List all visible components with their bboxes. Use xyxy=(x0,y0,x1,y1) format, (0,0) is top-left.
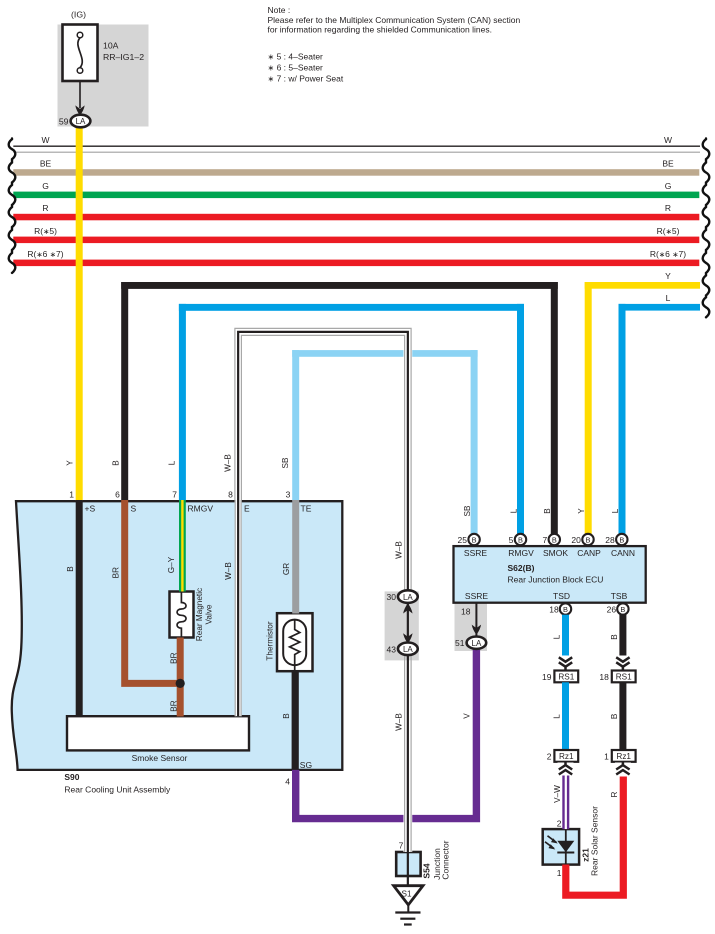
svg-text:W–B: W–B xyxy=(224,562,233,580)
fuse RR-IG1-2 10A xyxy=(63,25,98,82)
wire bus G xyxy=(13,192,699,199)
svg-text:26: 26 xyxy=(607,604,617,614)
svg-text:S54: S54 xyxy=(422,863,432,878)
svg-text:S: S xyxy=(131,504,137,514)
svg-text:BR: BR xyxy=(169,700,178,711)
svg-text:Valve: Valve xyxy=(205,604,214,624)
bus labels left xyxy=(27,135,63,259)
svg-text:20: 20 xyxy=(571,535,581,545)
wire G-Y pin7 to valve xyxy=(179,500,186,592)
wire B vertical to ECU SMOK pin7 xyxy=(551,282,558,535)
svg-text:CANN: CANN xyxy=(611,548,635,558)
z21 photodiode symbol xyxy=(545,829,574,864)
svg-text:B: B xyxy=(610,713,619,719)
wire L vertical to ECU RMGV pin5 xyxy=(517,304,524,535)
wire Y vertical to ECU CANP pin20 xyxy=(585,282,592,535)
svg-text:R(∗6 ∗7): R(∗6 ∗7) xyxy=(650,249,686,259)
arrow into 51 LA xyxy=(472,625,481,635)
svg-text:G–Y: G–Y xyxy=(167,556,176,573)
ECU top pin numbers xyxy=(458,535,615,545)
svg-text:V: V xyxy=(462,713,471,719)
svg-text:B: B xyxy=(619,535,624,544)
svg-text:3: 3 xyxy=(286,490,291,500)
svg-text:43: 43 xyxy=(387,644,397,654)
svg-text:59: 59 xyxy=(59,117,69,127)
wire L horizontal bus-mid xyxy=(179,304,524,311)
svg-text:+S: +S xyxy=(85,504,96,514)
svg-text:SB: SB xyxy=(463,505,472,516)
svg-text:B: B xyxy=(563,605,568,614)
wire V S90 pin4 to 51 LA xyxy=(296,648,477,819)
wire bus R(*5) xyxy=(13,237,699,244)
wire color labels above ECU xyxy=(463,505,620,516)
svg-text:6: 6 xyxy=(115,490,120,500)
wire Y fuse to S90 pin1 xyxy=(76,127,83,501)
svg-text:25: 25 xyxy=(458,535,468,545)
svg-text:BE: BE xyxy=(662,158,674,168)
svg-text:E: E xyxy=(244,504,250,514)
svg-text:Rz1: Rz1 xyxy=(559,752,574,761)
svg-text:1: 1 xyxy=(604,751,609,761)
svg-text:30: 30 xyxy=(387,592,397,602)
ECU top pin circles B xyxy=(468,534,627,545)
wire B RS1 to Rz1 xyxy=(619,682,626,750)
svg-text:S62(B): S62(B) xyxy=(508,563,535,573)
svg-text:for information regarding the: for information regarding the shielded C… xyxy=(268,25,492,35)
SSRE pin 18 wire to 51 LA xyxy=(475,603,477,638)
svg-text:B: B xyxy=(610,634,619,640)
svg-text:5: 5 xyxy=(509,535,514,545)
svg-text:∗ 7 : w/ Power Seat: ∗ 7 : w/ Power Seat xyxy=(268,74,344,84)
svg-text:Y: Y xyxy=(665,271,671,281)
svg-text:18: 18 xyxy=(549,604,559,614)
svg-text:G: G xyxy=(665,181,672,191)
wire L vertical to S90 pin7 xyxy=(179,304,186,501)
wire shielded W-B white backing xyxy=(238,332,408,852)
svg-text:R(∗5): R(∗5) xyxy=(34,226,57,236)
svg-text:CANP: CANP xyxy=(577,548,601,558)
svg-text:RS1: RS1 xyxy=(616,673,632,682)
S4 junction connector box xyxy=(396,852,420,876)
wire B TSB to RS1 xyxy=(619,615,626,671)
chevrons into RS1 TSB xyxy=(615,656,631,671)
svg-text:R: R xyxy=(610,791,619,797)
svg-text:7: 7 xyxy=(542,535,547,545)
svg-text:GR: GR xyxy=(282,563,291,575)
S90 pin names xyxy=(85,504,313,771)
svg-text:L: L xyxy=(552,714,561,719)
svg-text:10A: 10A xyxy=(103,41,119,51)
svg-text:51: 51 xyxy=(455,638,465,648)
fuse block shading xyxy=(58,25,149,127)
svg-text:Please refer to the Multiplex: Please refer to the Multiplex Communicat… xyxy=(268,15,521,25)
chevrons into RS1 TSD xyxy=(558,656,574,671)
svg-text:RMGV: RMGV xyxy=(188,504,214,514)
svg-text:W–B: W–B xyxy=(394,541,403,559)
wire B thermistor to S90 pin4 xyxy=(292,671,299,770)
connector RS1 #19 xyxy=(554,671,578,683)
S90 pin numbers xyxy=(69,490,290,787)
svg-text:W: W xyxy=(664,135,672,145)
svg-text:28: 28 xyxy=(605,535,615,545)
rear magnetic valve box xyxy=(170,592,194,638)
svg-text:B: B xyxy=(620,605,625,614)
svg-text:SG: SG xyxy=(300,760,312,770)
wire bus L right segment xyxy=(619,304,701,311)
svg-text:18: 18 xyxy=(599,672,609,682)
valve coil symbol xyxy=(177,592,186,638)
wire color labels above S90 xyxy=(66,454,291,472)
S90 box Rear Cooling Unit Assembly xyxy=(12,501,343,770)
svg-text:B: B xyxy=(111,460,120,466)
svg-text:W: W xyxy=(41,135,49,145)
svg-text:L: L xyxy=(509,508,518,513)
wire bus Y right segment xyxy=(585,282,700,289)
wire L RS1 to Rz1 xyxy=(562,682,569,750)
svg-text:4: 4 xyxy=(285,777,290,787)
chevrons up below Rz1 #1 xyxy=(615,762,631,777)
svg-text:RMGV: RMGV xyxy=(508,548,534,558)
svg-text:Note :: Note : xyxy=(268,5,291,15)
svg-text:BE: BE xyxy=(40,158,52,168)
svg-text:W–B: W–B xyxy=(224,454,233,472)
wire V-W Rz1 to z21 pin2 xyxy=(562,776,569,830)
chevrons up below Rz1 #2 xyxy=(558,762,574,777)
svg-text:R: R xyxy=(665,203,671,213)
thermistor capsule + zigzag xyxy=(283,620,306,666)
svg-text:R(∗5): R(∗5) xyxy=(657,226,680,236)
wire bus W xyxy=(13,146,700,152)
wire B inside S90 pin1 to smoke sensor xyxy=(76,500,83,717)
svg-text:B: B xyxy=(282,713,291,719)
ECU top pin names xyxy=(464,548,635,558)
connector Rz1 #1 xyxy=(612,750,636,762)
svg-text:Rear Cooling Unit Assembly: Rear Cooling Unit Assembly xyxy=(64,784,171,794)
svg-text:Rear Solar Sensor: Rear Solar Sensor xyxy=(590,806,600,876)
wire W-B through S4 to ground S1 xyxy=(407,852,409,886)
svg-text:W–B: W–B xyxy=(394,713,403,731)
svg-text:1: 1 xyxy=(557,868,562,878)
ECU bottom pin circles xyxy=(560,603,629,614)
ECU bottom pin names xyxy=(465,591,628,601)
svg-text:Thermistor: Thermistor xyxy=(265,621,274,660)
wire B vertical to S90 pin6 xyxy=(121,282,128,501)
svg-text:B: B xyxy=(66,566,75,572)
svg-text:RR–IG1–2: RR–IG1–2 xyxy=(103,52,144,62)
NOTE xyxy=(268,5,521,84)
connector 51 LA xyxy=(467,637,487,649)
svg-text:Connector: Connector xyxy=(440,840,450,879)
connector 43 LA xyxy=(398,643,418,656)
svg-text:∗ 5 : 4–Seater: ∗ 5 : 4–Seater xyxy=(268,52,324,62)
ECU box S62(B) xyxy=(454,546,646,603)
svg-text:∗ 6 : 5–Seater: ∗ 6 : 5–Seater xyxy=(268,63,324,73)
svg-text:18: 18 xyxy=(461,606,471,616)
wire GR inside S90 pin3 to thermistor xyxy=(292,500,299,614)
svg-text:Rear Junction Block ECU: Rear Junction Block ECU xyxy=(508,575,604,585)
svg-text:S1: S1 xyxy=(401,890,411,899)
wire bus R xyxy=(13,214,699,221)
connector Rz1 #2 xyxy=(554,750,578,762)
svg-text:L: L xyxy=(552,634,561,639)
wire R z21 pin1 to Rz1 xyxy=(566,763,624,895)
svg-text:RS1: RS1 xyxy=(558,673,574,682)
svg-text:7: 7 xyxy=(399,841,404,851)
connector 59 LA xyxy=(59,115,91,128)
svg-text:19: 19 xyxy=(542,672,552,682)
junction BR xyxy=(176,679,185,688)
svg-text:SSRE: SSRE xyxy=(465,591,488,601)
svg-text:8: 8 xyxy=(228,490,233,500)
svg-text:LA: LA xyxy=(403,593,413,602)
svg-text:L: L xyxy=(611,508,620,513)
svg-text:L: L xyxy=(168,460,177,465)
svg-text:1: 1 xyxy=(69,490,74,500)
wire BR pin6 branch xyxy=(125,500,181,683)
arrow up from 43 to 30 xyxy=(403,603,412,613)
svg-text:Rear Magnetic: Rear Magnetic xyxy=(195,588,204,641)
svg-text:BR: BR xyxy=(169,652,178,663)
wire W-B inside S90 pin8 to smoke sensor xyxy=(235,500,242,716)
connector band 30/43 LA xyxy=(385,591,419,660)
svg-text:B: B xyxy=(472,535,477,544)
svg-text:R: R xyxy=(42,203,48,213)
svg-text:TSD: TSD xyxy=(553,591,570,601)
svg-text:SMOK: SMOK xyxy=(543,548,568,558)
svg-text:L: L xyxy=(666,293,671,303)
svg-text:V–W: V–W xyxy=(553,785,562,803)
svg-text:Rz1: Rz1 xyxy=(616,752,631,761)
bus labels right xyxy=(650,135,686,303)
bus break symbols left xyxy=(9,139,16,273)
svg-text:TE: TE xyxy=(301,504,312,514)
svg-text:B: B xyxy=(552,535,557,544)
svg-text:Y: Y xyxy=(66,460,75,466)
smoke sensor box xyxy=(67,716,249,750)
connector 30 LA xyxy=(398,590,418,603)
connector band 51 LA xyxy=(455,603,488,652)
wire shielded W-B loop xyxy=(235,328,411,852)
svg-text:LA: LA xyxy=(403,645,413,654)
svg-text:B: B xyxy=(586,535,591,544)
thermistor box xyxy=(277,613,313,671)
svg-text:LA: LA xyxy=(76,117,86,126)
ground S1 xyxy=(394,886,423,925)
wire bus R(*6 *7) xyxy=(13,260,699,267)
svg-text:R(∗6 ∗7): R(∗6 ∗7) xyxy=(27,249,63,259)
wire color labels inside S90 xyxy=(66,556,291,718)
wire bus BE xyxy=(13,169,699,176)
wire L vertical to ECU CANN pin28 xyxy=(619,304,626,535)
wire SB loop S90 pin3 to ECU pin25 xyxy=(292,350,477,357)
svg-text:TSB: TSB xyxy=(611,591,628,601)
svg-text:G: G xyxy=(42,181,49,191)
wire BR valve to smoke sensor xyxy=(177,638,184,717)
svg-text:Smoke Sensor: Smoke Sensor xyxy=(132,753,188,763)
z21 box xyxy=(543,829,579,865)
wire L TSD to RS1 xyxy=(562,615,569,671)
wire fuse to connector 59 xyxy=(79,81,81,108)
svg-text:B: B xyxy=(543,508,552,514)
svg-text:B: B xyxy=(518,535,523,544)
svg-text:7: 7 xyxy=(172,490,177,500)
svg-text:BR: BR xyxy=(111,567,120,578)
svg-text:(IG): (IG) xyxy=(71,10,86,20)
svg-text:Y: Y xyxy=(577,508,586,514)
svg-text:LA: LA xyxy=(472,639,482,648)
svg-text:2: 2 xyxy=(557,819,562,829)
svg-text:2: 2 xyxy=(547,751,552,761)
svg-text:SSRE: SSRE xyxy=(464,548,487,558)
bus break symbols right xyxy=(703,139,710,318)
connector RS1 #18 xyxy=(612,671,636,683)
wire B horizontal bus-mid xyxy=(121,282,558,289)
arrow down into 43 xyxy=(403,633,412,643)
svg-text:SB: SB xyxy=(281,457,290,468)
svg-text:S90: S90 xyxy=(64,772,79,782)
